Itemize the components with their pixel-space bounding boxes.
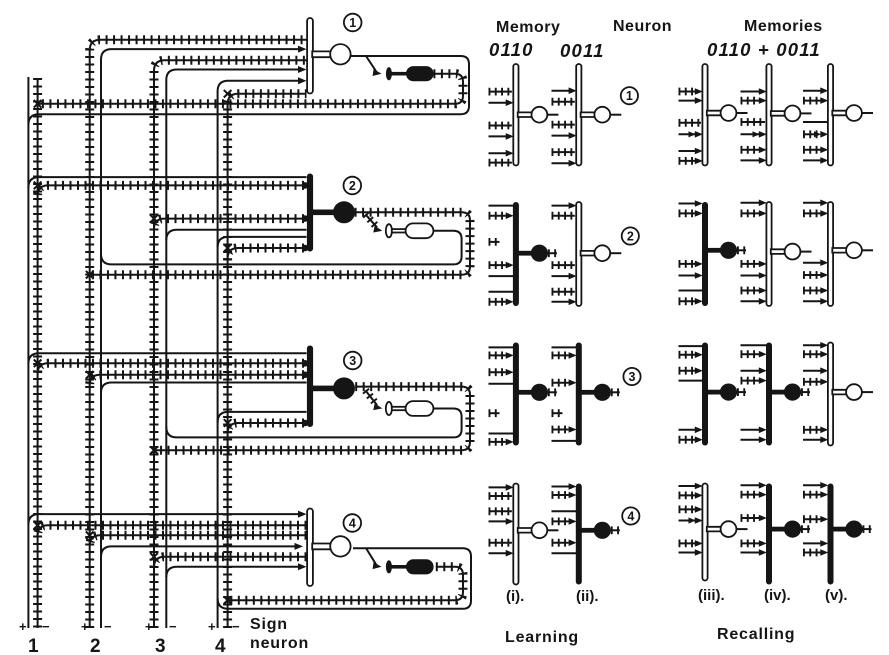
bus 2 hairy line with elbow into neuron 1 input row 1 xyxy=(90,40,307,628)
sign neuron stem (black) xyxy=(392,565,407,569)
sign neuron lens (black) xyxy=(386,560,392,573)
arrowhead neuron 4 row 4 xyxy=(295,543,304,550)
mini soma (black) xyxy=(531,384,548,401)
svg-text:neuron: neuron xyxy=(250,635,309,652)
input line (plain, arrow) xyxy=(741,300,762,302)
input line (hairy, arrow) xyxy=(803,350,821,358)
mini dendrite bar (black) xyxy=(766,484,772,585)
sign neuron stem (white tube) xyxy=(392,229,406,232)
input line (hairy, arrow) xyxy=(679,260,696,268)
sign neuron capsule (black) xyxy=(406,559,434,574)
input line (plain, arrow) xyxy=(679,275,698,277)
input line (hairy, arrow) xyxy=(741,97,760,105)
dendrite bar (white) xyxy=(307,18,313,94)
arrowhead neuron 4 row 6 xyxy=(298,563,307,570)
neuron 1 inner hairy feedback loop to bus 1 hairy xyxy=(38,74,463,104)
mini soma neck (white) xyxy=(832,248,846,253)
input line (plain, arrow) xyxy=(552,135,571,137)
input line (hairy) xyxy=(489,159,512,167)
mini output stub (hairy) xyxy=(801,388,810,396)
mini soma (black) xyxy=(784,521,801,538)
svg-text:+: + xyxy=(145,619,153,634)
svg-text:2: 2 xyxy=(90,636,101,655)
mini output stub (plain) xyxy=(801,251,812,253)
mini dendrite bar (black) xyxy=(766,343,772,446)
wire neuron 2 row 1 from bus 1 plain xyxy=(28,177,306,188)
input line (plain, arrow) xyxy=(489,152,508,154)
sign neuron capsule (black) xyxy=(406,66,434,81)
input line (hairy, arrow) xyxy=(741,209,760,217)
input line (plain, arrow) xyxy=(489,520,508,522)
input line (hairy, arrow) xyxy=(803,146,821,154)
input line (plain) xyxy=(489,205,514,207)
dendrite bar (black) xyxy=(307,174,313,252)
input line (hairy, arrow) xyxy=(679,436,696,444)
wire neuron 4 row 2 from bus 1 hairy xyxy=(38,525,307,536)
svg-text:+: + xyxy=(208,619,216,634)
input line (plain) xyxy=(552,440,577,442)
input line (hairy) xyxy=(552,261,575,269)
input line (plain, arrow) xyxy=(552,90,571,92)
mini output stub (hairy) xyxy=(801,525,810,533)
wire neuron 3 row 3 from bus 2 hairy xyxy=(90,375,304,386)
circled number 1 xyxy=(621,87,638,104)
input line (hairy, arrow) xyxy=(552,491,569,499)
mini soma (white) xyxy=(532,107,548,123)
mini dendrite bar (white) xyxy=(828,64,833,166)
input line (hairy, arrow) xyxy=(552,518,569,526)
mini dendrite bar (black) xyxy=(702,202,708,306)
axon branch to sign neuron (hairy) xyxy=(365,214,377,227)
svg-text:3: 3 xyxy=(155,636,166,655)
mini soma (white) xyxy=(721,105,737,121)
circled number 2 xyxy=(622,227,639,244)
sign neuron capsule (white) xyxy=(406,223,434,238)
sign neuron lens (white) xyxy=(386,224,392,237)
input line (hairy, arrow) xyxy=(679,157,696,165)
input line (hairy, arrow) xyxy=(679,540,696,548)
input line (plain, arrow) xyxy=(803,300,823,302)
mini soma (black) xyxy=(845,521,862,538)
input stub (short ticks) xyxy=(489,238,500,246)
mini output stub (plain) xyxy=(547,529,558,531)
mini dendrite bar (white) xyxy=(513,484,518,585)
input line (plain, arrow) xyxy=(803,262,823,264)
input line (plain, arrow) xyxy=(741,429,762,431)
wire neuron 2 row 2 from bus 1 hairy xyxy=(38,185,304,196)
neuron 3 inner plain feedback loop to bus 3 plain xyxy=(166,409,461,438)
input stub (short ticks) xyxy=(552,409,563,417)
mini soma (white) xyxy=(721,521,737,537)
input line (hairy) xyxy=(552,98,575,106)
input line (plain, arrow) xyxy=(679,552,698,554)
input line (hairy, double arrow) xyxy=(803,130,819,138)
svg-text:1: 1 xyxy=(28,636,39,655)
input line (plain, arrow) xyxy=(489,135,508,137)
wire neuron 4 row 4 from bus 2 plain xyxy=(101,546,300,557)
input line (hairy, arrow) xyxy=(741,146,760,154)
input line (plain, arrow) xyxy=(803,202,823,204)
mini dendrite bar (white) xyxy=(702,64,707,166)
input line (plain) xyxy=(489,275,514,277)
svg-text:4: 4 xyxy=(349,516,356,530)
mini soma neck (white) xyxy=(707,111,721,116)
mini soma neck (white) xyxy=(771,111,785,116)
svg-text:Recalling: Recalling xyxy=(717,626,795,643)
svg-text:−: − xyxy=(104,619,112,634)
input line (hairy, arrow) xyxy=(489,438,506,446)
arrowhead at sign neuron input xyxy=(373,226,383,235)
mini output stub (hairy) xyxy=(737,246,746,254)
mini soma (white) xyxy=(846,384,862,400)
input line (plain) xyxy=(679,345,704,347)
mini output stub (plain) xyxy=(737,112,748,114)
input line (plain, arrow) xyxy=(803,370,823,372)
svg-text:4: 4 xyxy=(627,509,634,523)
soma neck (white) xyxy=(312,51,331,57)
svg-text:Memory: Memory xyxy=(496,19,560,36)
circled number 4 xyxy=(344,514,362,532)
input line (hairy, arrow) xyxy=(803,549,821,557)
bus 1 hairy line (+) xyxy=(33,78,42,628)
dendrite bar (black) xyxy=(307,346,313,428)
svg-text:(iv).: (iv). xyxy=(764,587,791,604)
svg-text:Learning: Learning xyxy=(505,629,579,646)
input line (plain, arrow) xyxy=(803,90,823,92)
bus 3 plain line with elbow into neuron 1 input row 4 xyxy=(166,70,303,629)
mini dendrite bar (white) xyxy=(576,202,581,306)
mini soma (black) xyxy=(720,242,737,259)
wire neuron 3 row 2 from bus 1 hairy xyxy=(38,363,304,374)
wire neuron 2 row 6 from bus 4 hairy xyxy=(228,248,304,259)
bus 3 hairy line with elbow into neuron 1 input row 3 xyxy=(154,60,307,628)
wire neuron 4 row 1 from bus 1 plain xyxy=(28,514,303,525)
input line (hairy, arrow) xyxy=(679,491,696,499)
input line (hairy, arrow) xyxy=(489,298,506,306)
wire neuron 2 row 5 from bus 4 plain xyxy=(218,237,307,248)
input line (plain) xyxy=(679,290,704,292)
wire neuron 4 row 5 from bus 3 hairy xyxy=(154,557,307,568)
mini soma (white) xyxy=(532,522,548,538)
input line (hairy) xyxy=(552,212,575,220)
bus 4 hairy line with elbow into neuron 1 input row 6 xyxy=(228,94,307,628)
mini dendrite bar (white) xyxy=(513,64,518,166)
wire neuron 4 row 3 from bus 2 hairy xyxy=(90,535,307,546)
bus 4 plain line with elbow into neuron 1 input row 5 xyxy=(218,81,304,628)
mini soma neck (black) xyxy=(516,251,532,256)
mini output stub (hairy) xyxy=(548,388,557,396)
mini soma (black) xyxy=(594,522,611,539)
input line (hairy, arrow) xyxy=(679,351,696,359)
input line (plain, double arrow) xyxy=(679,133,698,135)
mini dendrite bar (black) xyxy=(828,484,834,585)
arrowhead neuron 4 row 1 xyxy=(298,511,307,518)
input line (plain, arrow) xyxy=(741,275,762,277)
junction marks on hairy lines xyxy=(34,100,42,108)
mini output stub (plain) xyxy=(610,252,621,254)
input line (plain, arrow) xyxy=(552,486,571,488)
input line (hairy) xyxy=(552,148,575,156)
input line (plain) xyxy=(489,433,514,435)
input line (plain, arrow) xyxy=(803,484,823,486)
mini dendrite bar (black) xyxy=(576,343,582,446)
mini soma (white) xyxy=(846,105,862,121)
input line (hairy, arrow) xyxy=(803,97,821,105)
mini soma neck (black) xyxy=(831,527,847,532)
input line (hairy, arrow) xyxy=(679,88,696,96)
mini soma neck (white) xyxy=(832,390,846,395)
wire neuron 2 row 4 from bus 3 plain xyxy=(166,230,306,241)
mini dendrite bar (white) xyxy=(828,343,833,446)
input line (hairy, arrow) xyxy=(803,491,821,499)
mini dendrite bar (white) xyxy=(576,64,581,166)
soma neck (black) xyxy=(310,210,334,216)
arrowhead at sign neuron input xyxy=(373,69,382,77)
neuron 2 outer hairy feedback loop to bus 2 hairy xyxy=(90,212,470,274)
input line (plain, arrow) xyxy=(552,205,571,207)
mini dendrite bar (black) xyxy=(702,343,708,446)
input line (hairy) xyxy=(489,492,512,500)
input line (hairy, arrow) xyxy=(552,379,569,387)
mini output stub (plain) xyxy=(862,112,873,114)
mini soma neck (black) xyxy=(579,390,595,395)
svg-text:(ii).: (ii). xyxy=(576,588,599,605)
svg-text:0110: 0110 xyxy=(489,39,534,60)
mini soma neck (black) xyxy=(769,390,785,395)
input line (hairy, arrow) xyxy=(741,350,760,358)
soma (black) xyxy=(333,201,355,223)
input line (hairy, arrow) xyxy=(552,426,569,434)
input line (plain, arrow) xyxy=(803,344,823,346)
mini soma (black) xyxy=(594,384,611,401)
svg-text:−: − xyxy=(169,619,177,634)
wire neuron 3 row 1 from bus 1 plain xyxy=(28,353,306,364)
neuron 1 outer plain feedback loop to bus 1 plain xyxy=(28,56,469,125)
input line (hairy, arrow) xyxy=(489,368,506,376)
input line (plain) xyxy=(552,346,577,348)
mini soma (white) xyxy=(846,242,862,258)
mini soma neck (white) xyxy=(581,112,595,117)
sign neuron capsule (white) xyxy=(406,401,434,416)
input line (plain, arrow) xyxy=(679,429,698,431)
mini output stub (hairy) xyxy=(611,388,620,396)
svg-text:4: 4 xyxy=(215,636,226,655)
input line (plain, arrow) xyxy=(741,552,762,554)
dendrite bar (white) xyxy=(307,509,313,587)
mini output stub (plain) xyxy=(862,249,873,251)
input line (hairy, arrow) xyxy=(489,212,506,220)
svg-text:1: 1 xyxy=(626,89,633,103)
mini output stub (plain) xyxy=(862,391,873,393)
input line (hairy, arrow) xyxy=(679,209,696,217)
arrowhead at sign neuron input xyxy=(373,562,382,570)
input line (plain, arrow) xyxy=(679,203,698,205)
input line (plain, double arrow) xyxy=(679,520,698,522)
input line (plain, arrow) xyxy=(741,202,762,204)
mini soma neck (black) xyxy=(705,248,721,253)
input line (hairy, arrow) xyxy=(741,514,760,522)
bus 2 plain line with elbow into neuron 1 input row 2 xyxy=(101,49,304,628)
mini output stub (plain) xyxy=(547,114,558,116)
mini soma (black) xyxy=(784,384,801,401)
mini soma (white) xyxy=(594,245,610,261)
svg-text:Neuron: Neuron xyxy=(613,18,672,35)
input line (plain) xyxy=(489,383,514,385)
input line (plain, arrow) xyxy=(489,486,508,488)
mini soma neck (white) xyxy=(832,111,846,116)
input line (hairy, arrow) xyxy=(741,260,760,268)
input line (plain, arrow) xyxy=(803,542,823,544)
soma neck (white) xyxy=(312,544,331,550)
svg-text:Memories: Memories xyxy=(744,18,823,35)
svg-text:3: 3 xyxy=(629,370,636,384)
mini soma neck (black) xyxy=(516,390,532,395)
input line (hairy) xyxy=(679,119,702,127)
input line (hairy, arrow) xyxy=(679,367,696,375)
input line (hairy, arrow) xyxy=(489,261,506,269)
circled number 3 xyxy=(623,368,640,385)
input line (hairy) xyxy=(489,539,512,547)
sign neuron lens (white) xyxy=(386,402,392,415)
input line (plain) xyxy=(803,121,829,123)
input line (plain, arrow) xyxy=(741,439,762,441)
mini soma (white) xyxy=(785,106,801,122)
wire neuron 3 row 6 from bus 4 hairy xyxy=(228,423,304,434)
arrowhead neuron 1 row 5 xyxy=(298,77,307,84)
mini dendrite bar (white) xyxy=(766,64,771,166)
wire neuron 2 row 3 from bus 3 hairy xyxy=(154,219,304,230)
input line (plain, arrow) xyxy=(803,439,823,441)
svg-text:(i).: (i). xyxy=(506,588,524,605)
input line (plain, arrow) xyxy=(489,552,508,554)
input line (plain) xyxy=(679,380,704,382)
input line (hairy, arrow) xyxy=(552,539,569,547)
mini soma neck (white) xyxy=(518,528,532,533)
neuron 4 inner hairy feedback loop to bus 4 hairy xyxy=(228,567,463,600)
input stub (short ticks) xyxy=(489,409,500,417)
input line (plain, arrow) xyxy=(552,162,571,164)
svg-text:(iii).: (iii). xyxy=(698,587,725,604)
mini soma (white) xyxy=(785,244,801,260)
input line (hairy, arrow) xyxy=(741,491,760,499)
mini output stub (hairy) xyxy=(611,526,620,534)
input line (plain, arrow) xyxy=(679,100,698,102)
axon branch to sign neuron (hairy) xyxy=(365,390,377,405)
wire neuron 4 row 6 from bus 3 plain xyxy=(166,567,303,578)
svg-text:−: − xyxy=(42,619,50,634)
input line (hairy, arrow) xyxy=(803,426,821,434)
input line (hairy, arrow) xyxy=(803,378,821,386)
mini soma neck (black) xyxy=(579,528,595,533)
circled number 4 xyxy=(622,507,639,524)
input line (plain) xyxy=(489,346,514,348)
input line (plain) xyxy=(552,510,577,512)
mini dendrite bar (black) xyxy=(513,202,519,306)
mini soma (white) xyxy=(594,107,610,123)
input line (hairy, arrow) xyxy=(803,209,821,217)
input line (plain, arrow) xyxy=(679,150,698,152)
svg-text:+: + xyxy=(81,619,89,634)
svg-text:Sign: Sign xyxy=(250,616,288,633)
mini soma (black) xyxy=(720,384,737,401)
svg-text:(v).: (v). xyxy=(825,587,848,604)
input line (plain) xyxy=(552,552,577,554)
svg-text:2: 2 xyxy=(627,229,634,243)
mini soma neck (white) xyxy=(707,527,721,532)
mini soma (black) xyxy=(531,245,548,262)
mini soma neck (white) xyxy=(518,112,532,117)
circled number 1 xyxy=(344,14,362,32)
input line (plain, arrow) xyxy=(552,301,571,303)
sign neuron lens (black) xyxy=(386,67,392,80)
mini output stub (plain) xyxy=(610,114,621,116)
neuron 2 inner plain feedback loop to bus 2 plain xyxy=(101,231,462,265)
input line (plain, double arrow) xyxy=(741,133,762,135)
input line (plain, arrow) xyxy=(489,102,508,104)
mini soma neck (white) xyxy=(581,251,595,256)
input line (hairy, arrow) xyxy=(679,505,696,513)
input line (hairy, arrow) xyxy=(552,351,569,359)
soma neck (black) xyxy=(310,386,334,392)
circled number 3 xyxy=(344,352,362,370)
wire neuron 3 row 4 from bus 2 plain xyxy=(101,383,307,394)
svg-text:3: 3 xyxy=(349,354,356,368)
arrowhead at sign neuron input xyxy=(373,403,383,412)
mini soma neck (white) xyxy=(771,249,785,254)
mini dendrite bar (white) xyxy=(702,484,707,581)
svg-text:0110 + 0011: 0110 + 0011 xyxy=(707,39,821,60)
input line (plain, arrow) xyxy=(803,159,823,161)
axon branch to sign neuron (plain) xyxy=(366,548,376,564)
input line (hairy) xyxy=(489,507,512,515)
svg-text:−: − xyxy=(232,619,240,634)
input line (hairy) xyxy=(489,88,512,96)
input line (plain, arrow) xyxy=(741,91,762,93)
svg-text:+: + xyxy=(19,619,27,634)
sign neuron stem (black) xyxy=(392,72,407,76)
input line (hairy, arrow) xyxy=(741,287,760,295)
input line (plain) xyxy=(741,344,768,346)
mini soma neck (black) xyxy=(705,390,721,395)
input line (plain, arrow) xyxy=(679,485,698,487)
sign neuron stem (white tube) xyxy=(392,407,406,410)
mini dendrite bar (black) xyxy=(513,343,519,446)
input line (plain, arrow) xyxy=(552,275,571,277)
input line (hairy, arrow) xyxy=(679,297,696,305)
wire neuron 3 row 5 from bus 4 plain xyxy=(218,412,307,423)
mini dendrite bar (white) xyxy=(766,202,771,306)
soma (white) xyxy=(330,44,350,64)
svg-text:1: 1 xyxy=(349,16,356,30)
input line (hairy) xyxy=(741,118,766,126)
soma (white) xyxy=(330,536,350,556)
mini output stub (hairy) xyxy=(863,525,872,533)
input line (hairy) xyxy=(552,121,575,129)
input line (plain, arrow) xyxy=(741,370,762,372)
input line (hairy, arrow) xyxy=(803,287,821,295)
mini output stub (plain) xyxy=(737,528,748,530)
mini soma neck (black) xyxy=(769,527,785,532)
input line (hairy) xyxy=(552,288,575,296)
mini output stub (plain) xyxy=(801,112,812,114)
soma (black) xyxy=(333,377,355,399)
input line (plain, arrow) xyxy=(741,484,762,486)
circled number 2 xyxy=(344,177,362,195)
input line (hairy, arrow) xyxy=(489,351,506,359)
arrowhead neuron 1 row 4 xyxy=(298,66,307,73)
input line (hairy, arrow) xyxy=(741,377,760,385)
svg-text:2: 2 xyxy=(349,179,356,193)
